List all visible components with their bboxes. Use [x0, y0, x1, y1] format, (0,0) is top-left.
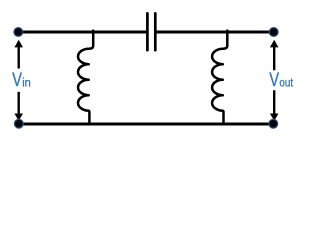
- label Vin: [10, 69, 32, 91]
- top wire right segment: [156, 31, 274, 34]
- Vout arrowhead up: [270, 40, 279, 48]
- bottom wire: [19, 123, 274, 126]
- terminal node bottom-left: [14, 119, 23, 128]
- inductor (left shunt): [78, 31, 93, 124]
- inductor (right shunt): [212, 31, 227, 124]
- Vin arrowhead down: [14, 114, 23, 121]
- Vin arrowhead up: [14, 40, 23, 48]
- label Vout: [267, 69, 295, 90]
- top wire left segment: [19, 31, 147, 34]
- capacitor (series, top): [147, 13, 155, 50]
- svg-text:V: V: [12, 69, 22, 90]
- svg-text:V: V: [269, 69, 279, 90]
- terminal node top-right: [269, 28, 278, 37]
- Vin arrow line (left, double-headed): [18, 47, 20, 115]
- Vout arrow line (right, double-headed): [273, 47, 275, 115]
- terminal node bottom-right: [269, 119, 278, 128]
- svg-text:in: in: [22, 77, 31, 89]
- svg-text:out: out: [279, 77, 293, 90]
- terminal node top-left: [14, 28, 23, 37]
- Vout arrowhead down: [270, 114, 279, 121]
